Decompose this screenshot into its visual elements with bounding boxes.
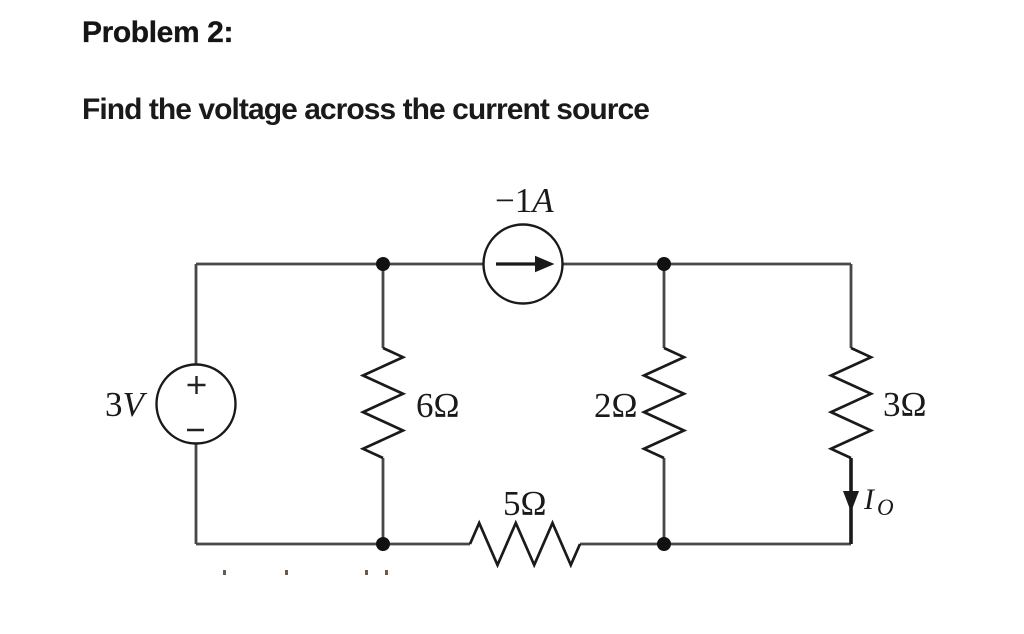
svg-text:2Ω: 2Ω <box>594 386 638 425</box>
svg-text:3Ω: 3Ω <box>883 385 927 424</box>
svg-text:6Ω: 6Ω <box>416 386 460 425</box>
svg-text:3V: 3V <box>105 385 148 424</box>
svg-text:−1A: −1A <box>495 181 554 220</box>
svg-text:IO: IO <box>863 483 894 520</box>
svg-text:5Ω: 5Ω <box>503 484 547 523</box>
